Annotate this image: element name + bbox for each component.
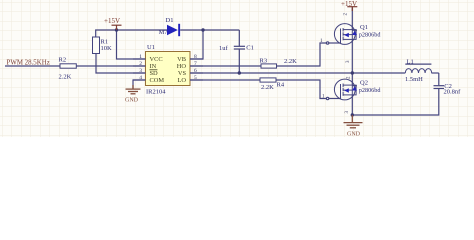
svg-text:IN: IN [150, 63, 157, 70]
svg-text:VS: VS [178, 70, 187, 77]
svg-text:PWM 28.5KHz: PWM 28.5KHz [7, 60, 50, 67]
svg-text:IR2104: IR2104 [146, 88, 166, 95]
svg-text:U1: U1 [147, 44, 155, 51]
svg-text:LO: LO [177, 77, 186, 84]
svg-text:R3: R3 [260, 58, 268, 65]
svg-text:Q2: Q2 [360, 80, 368, 87]
svg-text:GND: GND [125, 98, 139, 104]
svg-text:8: 8 [194, 54, 197, 60]
svg-text:D1: D1 [166, 17, 174, 24]
svg-text:20.8nf: 20.8nf [444, 89, 462, 96]
svg-text:1: 1 [139, 54, 142, 60]
svg-text:3: 3 [139, 68, 142, 74]
svg-text:1.5mH: 1.5mH [405, 76, 423, 83]
svg-text:HO: HO [177, 63, 187, 70]
svg-text:10K: 10K [101, 45, 113, 52]
svg-text:R2: R2 [59, 57, 67, 64]
svg-text:5: 5 [194, 75, 197, 81]
svg-text:p2806bd: p2806bd [359, 87, 382, 94]
svg-text:C1: C1 [246, 45, 254, 52]
svg-text:1uf: 1uf [219, 45, 229, 52]
svg-text:VCC: VCC [150, 56, 163, 63]
svg-text:GND: GND [347, 132, 361, 138]
svg-text:7: 7 [194, 61, 197, 67]
svg-text:2: 2 [139, 61, 142, 67]
svg-text:COM: COM [150, 77, 165, 84]
svg-text:VB: VB [177, 56, 186, 63]
svg-text:+15V: +15V [104, 17, 120, 25]
svg-text:R4: R4 [277, 82, 285, 89]
svg-text:SD: SD [150, 70, 159, 77]
svg-text:2.2K: 2.2K [284, 58, 297, 65]
svg-text:+15V: +15V [341, 0, 357, 8]
svg-text:p2806bd: p2806bd [359, 32, 382, 39]
svg-text:4: 4 [139, 75, 142, 81]
svg-text:2.2K: 2.2K [59, 74, 72, 81]
svg-text:Q1: Q1 [360, 24, 368, 31]
svg-text:M7: M7 [159, 29, 168, 36]
svg-text:L1: L1 [407, 58, 414, 65]
svg-text:6: 6 [194, 68, 197, 74]
svg-text:2.2K: 2.2K [261, 84, 274, 91]
